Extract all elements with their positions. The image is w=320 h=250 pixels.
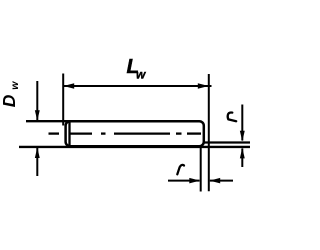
svg-text:D: D xyxy=(0,94,19,107)
svg-text:w: w xyxy=(9,81,21,90)
svg-text:w: w xyxy=(136,67,146,81)
